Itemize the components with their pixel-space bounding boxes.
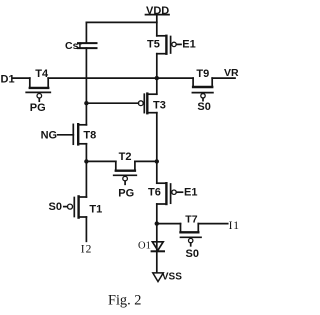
net VSS label [162, 271, 182, 282]
net S0 label (T7) [186, 248, 199, 260]
wire T9 to VR [212, 77, 235, 79]
svg-text:T2: T2 [119, 151, 132, 163]
node junction dot T2 left [84, 159, 88, 163]
net PG label (T2) [118, 188, 134, 200]
wire NG to T8 gate [58, 134, 74, 136]
svg-text:T5: T5 [147, 39, 160, 51]
net VDD underline [146, 14, 170, 16]
transistor T1 [68, 196, 103, 217]
net D1 label [1, 73, 15, 85]
svg-text:T8: T8 [83, 130, 96, 142]
svg-text:T1: T1 [89, 204, 102, 216]
net VR label [224, 67, 239, 79]
svg-text:O1: O1 [138, 241, 151, 252]
svg-text:PG: PG [30, 102, 46, 114]
svg-text:Fig. 2: Fig. 2 [108, 292, 141, 308]
svg-text:E1: E1 [182, 39, 195, 51]
wire right spine T5 to T3 [156, 54, 158, 94]
net E1 label (T6) [184, 187, 197, 199]
node junction dot Cst/T3-gate [84, 101, 88, 105]
net I2 label [81, 244, 93, 256]
svg-text:PG: PG [118, 188, 134, 200]
transistor T5 [147, 36, 176, 54]
wire T2 left [86, 160, 115, 162]
node junction dot T7 row [155, 221, 159, 225]
wire top rail [86, 21, 156, 23]
wire rail to Cst top [85, 22, 87, 43]
transistor T4 [26, 68, 50, 101]
svg-text:T6: T6 [148, 186, 161, 198]
net PG label (T4) [30, 102, 46, 114]
wire left spine T8 to T1 [85, 144, 87, 197]
transistor T9 [192, 68, 213, 101]
svg-text:T7: T7 [185, 214, 197, 226]
wire right spine T3 to T6 [156, 113, 158, 184]
svg-text:VR: VR [224, 67, 239, 79]
net VDD label [146, 5, 169, 17]
svg-text:I1: I1 [229, 220, 240, 232]
svg-text:E1: E1 [184, 187, 197, 199]
transistor T6 [148, 183, 176, 204]
svg-text:Cst: Cst [65, 40, 82, 52]
svg-text:D1: D1 [1, 73, 15, 85]
wire T5 gate to E1 [176, 43, 181, 45]
net E1 label (T5) [182, 39, 195, 51]
wire diode to VSS [156, 251, 158, 273]
net I1 label [229, 220, 240, 232]
wire T6 gate to E1 [176, 191, 182, 193]
diode O1 [138, 241, 164, 252]
wire node to T3 gate [86, 102, 138, 104]
svg-text:T4: T4 [35, 68, 49, 80]
wire T4 to spine [48, 77, 193, 79]
net S0 label (T1) [49, 201, 62, 213]
svg-text:T3: T3 [153, 99, 166, 111]
node junction dot T2 right [155, 159, 159, 163]
transistor T8 [73, 124, 96, 144]
net NG label [41, 130, 58, 142]
wire D1 to T4 [13, 77, 30, 79]
wire Cst bottom vertical [85, 48, 87, 125]
svg-text:VSS: VSS [162, 271, 182, 282]
wire S0 to T1 gate [64, 206, 67, 208]
wire T7 to I1 [198, 223, 227, 225]
node junction dot T4/T9 row [155, 76, 159, 80]
wire right spine T6 to diode [156, 204, 158, 251]
svg-text:T9: T9 [196, 68, 209, 80]
transistor T3 [138, 94, 165, 114]
wire T7 left [157, 223, 181, 225]
transistor T7 [181, 214, 202, 246]
svg-text:S0: S0 [197, 101, 210, 113]
net S0 label (T9) [197, 101, 210, 113]
svg-text:S0: S0 [49, 201, 62, 213]
ground VSS arrow [153, 273, 164, 282]
wire T2 right [135, 160, 157, 162]
svg-text:NG: NG [41, 130, 58, 142]
wire T1 to I2 [85, 217, 87, 241]
svg-text:S0: S0 [186, 248, 199, 260]
transistor T2 [114, 151, 137, 184]
wire VDD vertical [156, 15, 158, 36]
svg-text:I2: I2 [81, 244, 93, 256]
capacitor Cst [65, 40, 97, 52]
